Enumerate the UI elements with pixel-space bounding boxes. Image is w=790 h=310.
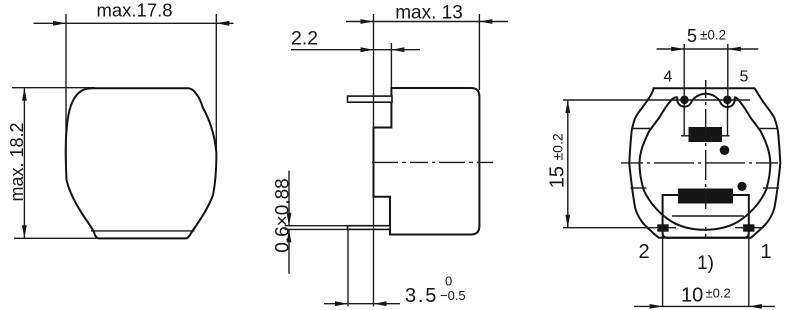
extension line pin4 (x=684.2) (683, 44, 685, 110)
extension line 15 bottom (y=227.7 through squares) (563, 227, 676, 229)
extension line pin5 (x=727.8) (727, 44, 729, 110)
arrowhead left (points right at x=66) (53, 21, 66, 26)
pin 5 dot (723, 96, 732, 105)
pin 1 square (743, 224, 754, 231)
frame (bobbin outline) (663, 195, 749, 238)
wire line pin4 to coil (683, 104, 685, 136)
pin5 notch arc (720, 97, 734, 107)
svg-text:1): 1) (697, 253, 714, 274)
vertical centerline (705, 80, 707, 246)
arrowhead (points right at x=348) (335, 301, 348, 306)
inner can boundary (squircle) (639, 97, 770, 230)
extension line bottom of max. 18.2 (14, 237, 97, 239)
dot lower right (737, 182, 746, 191)
arrowhead (points left at x=373.5) (374, 301, 387, 306)
pin 4 dot (680, 96, 689, 105)
arrowhead right (points left at x=479.4) (479, 19, 492, 24)
arrowhead bottom (points down at y=238) (22, 225, 27, 238)
centerline dash-dot (372, 161, 493, 163)
extension line left (x=373.5 from dim to body corner) (373, 14, 375, 128)
svg-text:1: 1 (760, 241, 771, 263)
svg-text:0: 0 (445, 274, 452, 289)
svg-text:15: 15 (547, 166, 569, 188)
chord line inside frame (672, 215, 744, 217)
bottom pin (348, 226, 391, 230)
extension line 10 left (x=662.6 below square) (662, 232, 664, 307)
wire line pin5 to coil (727, 104, 729, 136)
case outline (bottom view) (629, 88, 780, 238)
extension line 15 top (y=100 through pins) (563, 99, 750, 101)
dot near center (720, 145, 730, 155)
pin 2 square (657, 224, 668, 231)
tick at coil right (722, 135, 730, 137)
svg-text:4: 4 (664, 69, 673, 86)
extension line 10 right (x=748.8 below square) (748, 232, 750, 307)
dimension line 5+-0.2 (657, 48, 759, 50)
corner tick upper-right (758, 128, 778, 130)
buzzer front outline (66, 88, 217, 238)
top coil black rect (689, 127, 723, 142)
dimension line 3.5 (324, 303, 400, 305)
extension line right (x=479.4) (478, 14, 480, 90)
hump between pins (692, 94, 721, 102)
svg-text:−0.5: −0.5 (440, 288, 466, 303)
dimension line 10+-0.2 (634, 305, 775, 307)
arrowhead (points left at x=391.4) (391, 47, 404, 52)
dimension line 0.6x0.88 upper (288, 171, 290, 226)
dimension line max. 13 (346, 21, 508, 23)
extension lines 0.6x0.88 (pin edges extended) (285, 225, 348, 227)
horizontal centerline (621, 162, 783, 164)
corner tick upper-left (632, 128, 652, 130)
svg-text:5: 5 (687, 26, 697, 46)
svg-text:2: 2 (638, 241, 649, 263)
arrowhead left (points right at x=373.5) (361, 19, 374, 24)
svg-text:2.2: 2.2 (291, 28, 318, 50)
arrowhead (points right at x=373.5) (361, 47, 374, 52)
extension line top of max. 18.2 (12, 87, 95, 89)
tick at coil left (681, 135, 689, 137)
dimension line max. 18.2 (23, 88, 25, 239)
svg-text:±0.2: ±0.2 (700, 28, 726, 43)
arrowhead top (points up at y=87.7) (22, 88, 27, 101)
extension line 3.5 left (x=348 pin tip) (347, 230, 349, 306)
svg-text:±0.2: ±0.2 (706, 286, 731, 301)
corner tick lower-right (763, 187, 779, 189)
seam line near bottom (91, 230, 195, 232)
svg-text:±0.2: ±0.2 (550, 133, 566, 160)
corner tick lower-left (631, 187, 647, 189)
svg-text:10: 10 (681, 285, 703, 307)
svg-text:max. 13: max. 13 (395, 3, 463, 24)
arrowhead right (points left at x=216.3) (216, 21, 229, 26)
svg-text:5: 5 (740, 69, 749, 86)
extension line right of max.17.8 (215, 14, 217, 163)
dimension line 15+-0.2 (567, 100, 569, 228)
dimension line 0.6x0.88 lower (288, 229, 290, 273)
dimension line 2.2 (291, 49, 420, 51)
svg-text:3.5: 3.5 (405, 285, 438, 307)
svg-text:max.17.8: max.17.8 (96, 0, 172, 21)
top pin (348, 96, 393, 102)
extension line left lower (x=373.5 body corner to 3.5 dim) (373, 197, 375, 307)
extension line 2.2 right (x=391.4) (390, 43, 392, 88)
dimension line max.17.8 (34, 22, 234, 24)
pin4 notch arc (677, 97, 691, 106)
extension line left of max.17.8 (65, 14, 67, 163)
body side outline (374, 88, 480, 235)
middle coil black rect (678, 189, 733, 204)
